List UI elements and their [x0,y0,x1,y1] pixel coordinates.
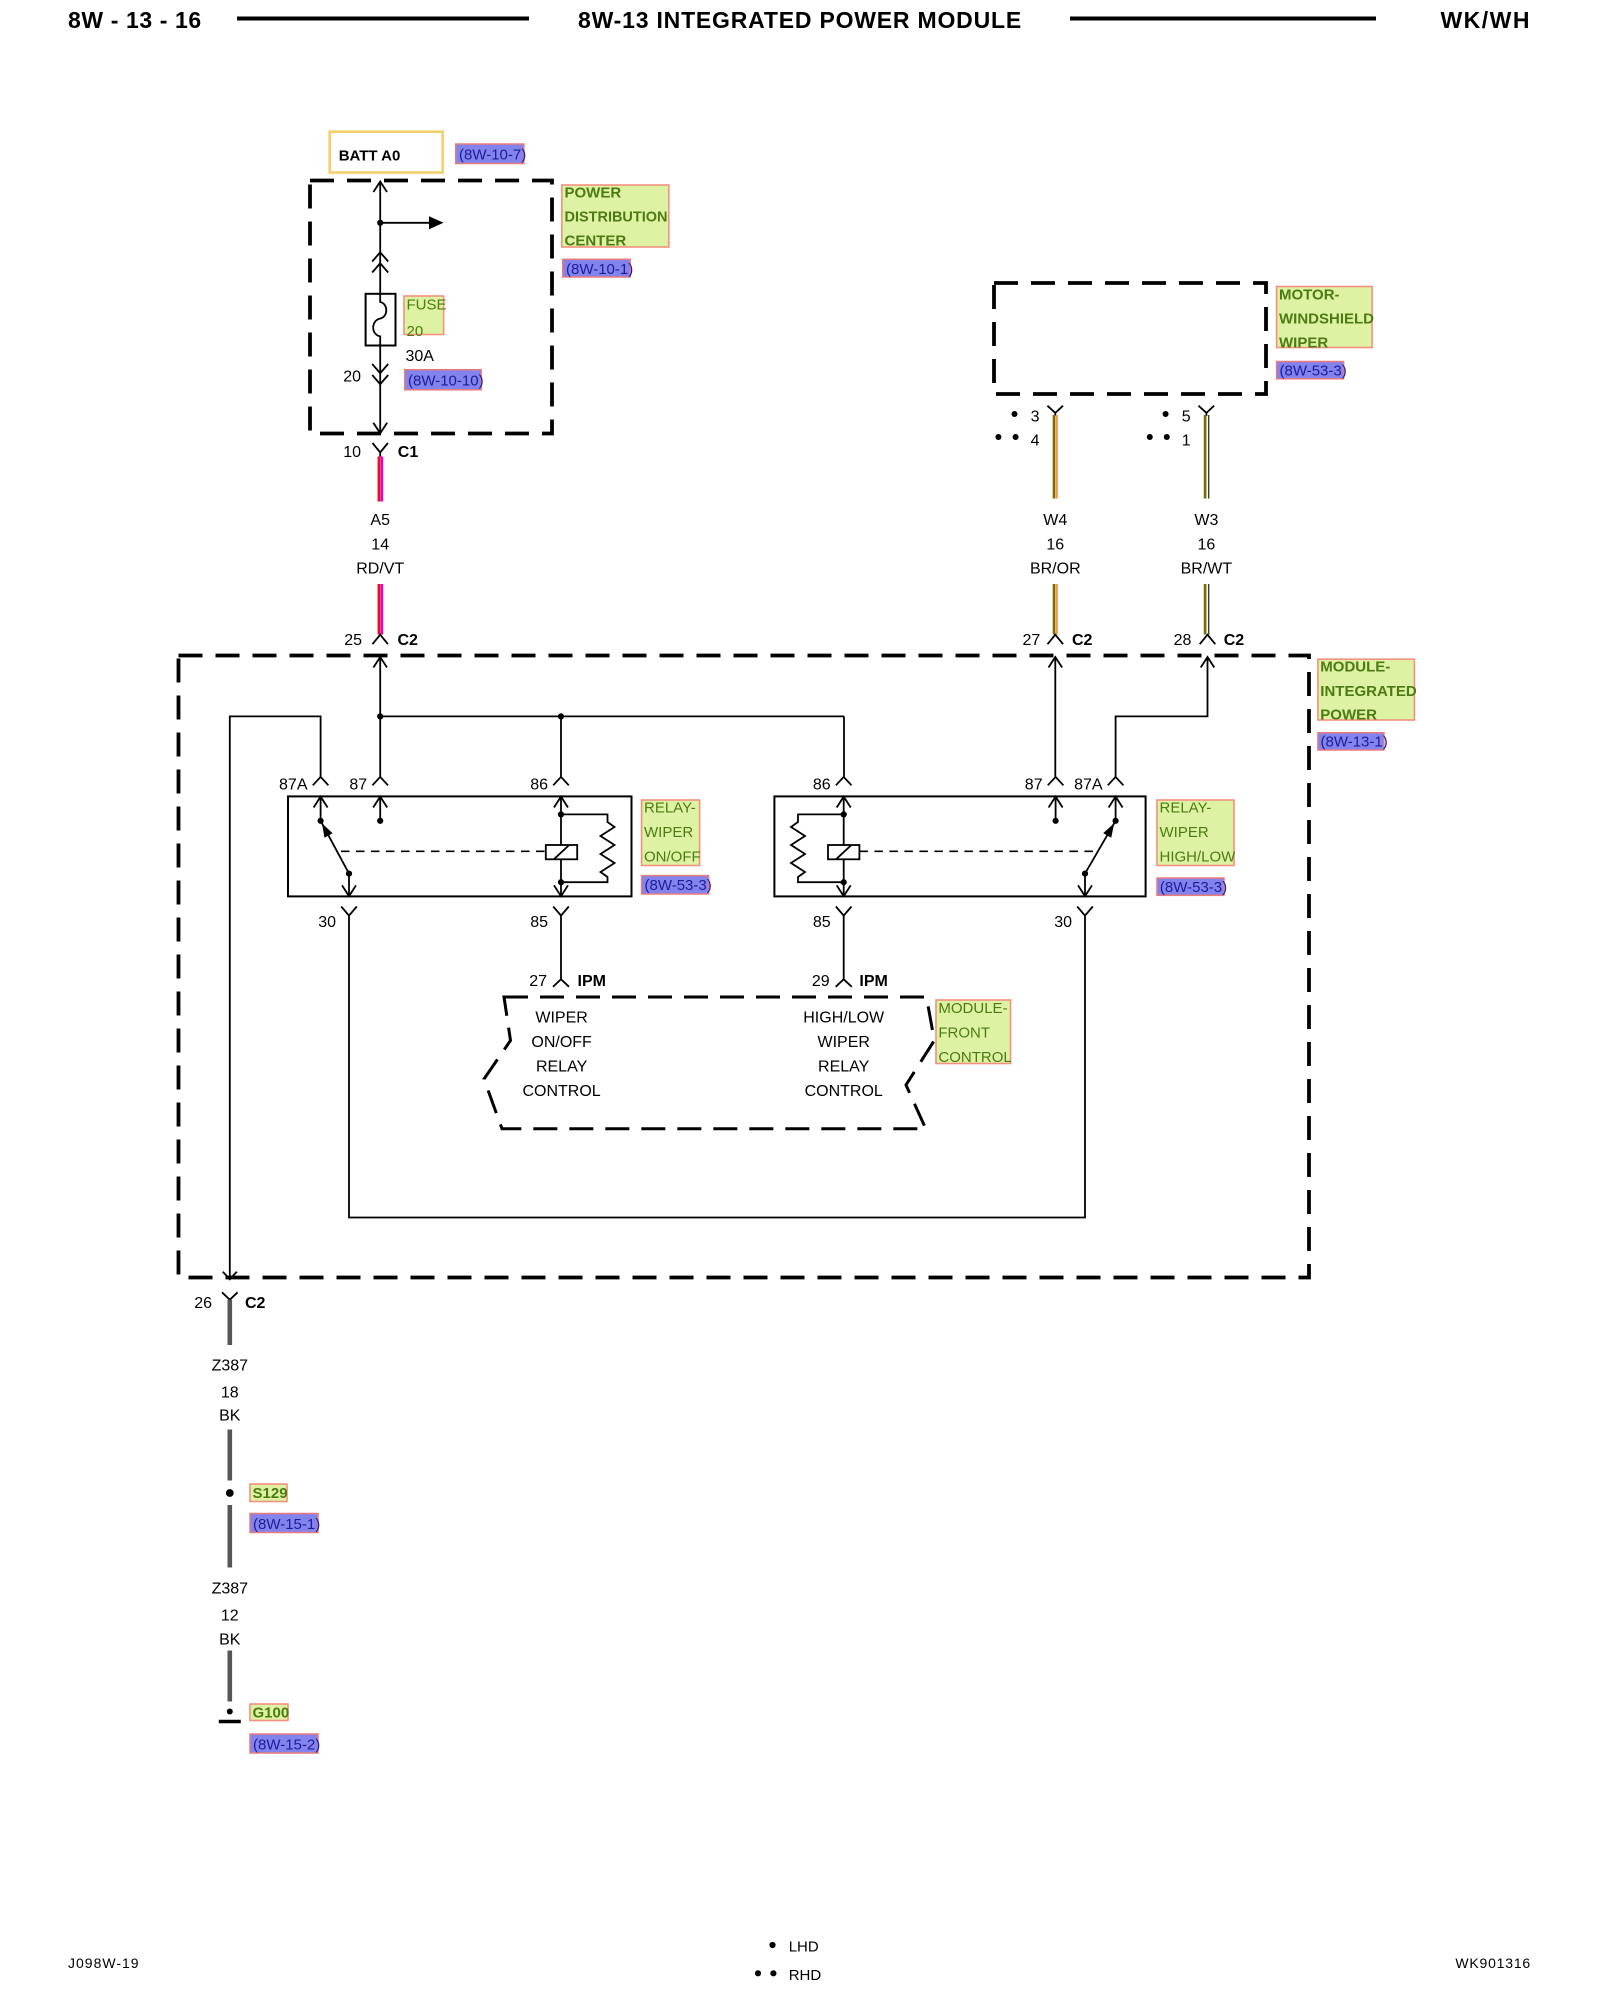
svg-text:ON/OFF: ON/OFF [644,849,701,866]
motor connector fork W4 [1047,406,1063,416]
wire feed from pin 25 [379,657,381,777]
svg-text:(8W-10-10): (8W-10-10) [408,373,484,390]
svg-text:85: 85 [813,914,831,931]
motor pin 3 (LHD) [1012,409,1040,426]
MOTOR-WINDSHIELD WIPER green label [1277,287,1375,352]
svg-text:FRONT: FRONT [938,1025,990,1042]
wire blade to pin 30 left [348,874,350,897]
wire Z387 BK segment 3 [228,1505,233,1568]
wire label W4 16 BR/OR [1030,512,1081,578]
node feed to 86 left [558,713,564,719]
svg-text:WK901316: WK901316 [1455,1955,1531,1971]
node coil bottom left [558,879,564,885]
svg-text:C2: C2 [1072,632,1093,649]
wire W4 16 BR/OR segment 1 [1054,415,1057,499]
svg-text:C1: C1 [398,444,419,461]
connector fork pin 85 left [553,907,569,925]
svg-text:(8W-53-3): (8W-53-3) [1280,363,1347,380]
relay wiper on/off box [288,796,632,896]
svg-text:MODULE-: MODULE- [938,1000,1007,1017]
svg-text:IPM: IPM [578,973,606,990]
wire pin 27 to relay 87 right [1054,657,1056,777]
relay coil right [828,845,859,859]
connector fork pin 30 left [341,907,357,925]
svg-text:12: 12 [221,1608,239,1625]
integrated power module dashed box [179,656,1310,1278]
wire Z387 12 BK segment 4 [228,1651,233,1702]
connector fork pin 30 right [1077,907,1093,925]
reference label (8W-13-1) [1318,733,1388,751]
power distribution center dashed box [310,181,552,434]
battery feed box BATT A0 [330,132,443,173]
pin arrow 85 right out of relay [837,885,851,896]
connector C2 pin 28 [1174,632,1245,649]
wire 87A left to pin 26 [230,716,321,1279]
node 87A left [318,818,324,824]
wire BATT feed inside PDC [379,182,381,223]
pin arrow 85 left out of relay [554,885,568,896]
svg-text:RHD: RHD [789,1967,822,1984]
svg-text:WK/WH: WK/WH [1440,7,1531,33]
reference label (8W-10-7) [456,144,527,164]
svg-text:87: 87 [1025,777,1043,794]
svg-text:30: 30 [318,914,336,931]
connector C1 pin 10 [343,443,418,461]
relay wiper high/low box [774,796,1145,896]
node 87 right stub end [1053,818,1059,824]
svg-text:WIPER: WIPER [535,1010,587,1027]
svg-text:G100: G100 [253,1705,290,1722]
high/low wiper relay control text [803,1010,885,1101]
svg-text:WIPER: WIPER [644,824,693,841]
svg-text:RELAY-: RELAY- [1160,800,1212,817]
MODULE-FRONT CONTROL green label [936,1000,1012,1066]
node feed junction [377,713,383,719]
svg-text:W3: W3 [1194,512,1218,529]
svg-text:10: 10 [343,444,361,461]
pin arrow 86 left into relay [554,797,568,808]
connector C2 pin 25 [344,632,418,649]
svg-text:5: 5 [1182,409,1191,426]
svg-text:BK: BK [219,1408,241,1425]
svg-text:BATT A0: BATT A0 [339,148,401,165]
wire A5 14 RD/VT segment 1 [379,457,382,502]
legend LHD marker [769,1939,818,1956]
resistor parallel branch left relay [561,814,615,882]
svg-text:C2: C2 [398,632,419,649]
svg-text:S129: S129 [253,1485,288,1502]
FUSE 20 green label [404,296,447,340]
wire label Z387 18 BK [212,1358,249,1425]
svg-text:CONTROL: CONTROL [805,1083,883,1100]
svg-text:Z387: Z387 [212,1581,249,1598]
svg-text:WIPER: WIPER [817,1034,869,1051]
svg-text:20: 20 [407,323,424,340]
svg-text:16: 16 [1046,537,1064,554]
reference label (8W-15-1) [250,1514,320,1534]
reference label (8W-53-3) left relay [642,876,712,894]
header rule right [1070,17,1376,21]
wire W4 16 BR/OR segment 2 [1054,584,1057,635]
legend RHD marker [755,1967,821,1984]
connector C2 pin 27 [1023,632,1093,649]
svg-text:1: 1 [1182,432,1191,449]
arrow into PDC at top border [373,182,387,193]
S129 green label [250,1484,288,1502]
wire branch to 86 right relay [843,716,845,776]
svg-text:J098W-19: J098W-19 [68,1955,140,1971]
pin stub 87A right [1115,797,1117,821]
wire junction to connector chevrons [379,223,381,294]
svg-text:(8W-10-7): (8W-10-7) [459,147,526,164]
svg-text:30A: 30A [406,348,435,365]
mechanical linkage dashed left relay [341,850,546,852]
pin arrow 87A left into relay [314,797,328,808]
svg-text:CENTER: CENTER [565,233,627,250]
wire pin 85 left to IPM control [560,925,562,980]
motor pin 5 (LHD) [1163,409,1191,426]
svg-text:Z387: Z387 [212,1358,249,1375]
svg-text:87A: 87A [1074,777,1103,794]
svg-text:POWER: POWER [565,185,622,202]
junction node in PDC [377,220,383,226]
pin stub 87 right [1055,797,1057,821]
connector fork IPM pin 27 [529,973,606,990]
module front control dashed outline [484,997,934,1129]
ground G100 symbol [219,1709,241,1722]
RELAY-WIPER HIGH/LOW green label [1157,800,1236,866]
wire A5 14 RD/VT segment 2 [379,584,382,635]
svg-text:87: 87 [349,777,367,794]
arrow out of IPM pin 26 [223,1272,237,1280]
svg-text:20: 20 [343,369,361,386]
motor pin 4 (RHD) [995,432,1039,449]
svg-text:30: 30 [1054,914,1072,931]
svg-text:ON/OFF: ON/OFF [531,1034,592,1051]
wire Z387 18 BK segment 2 [228,1430,233,1481]
svg-text:27: 27 [1023,632,1041,649]
arrow into IPM pin 25 [373,657,387,668]
wire label A5 14 RD/VT [356,512,404,578]
pin stub 87A left [320,797,322,821]
svg-text:C2: C2 [1224,632,1245,649]
svg-text:87A: 87A [279,777,308,794]
connector chevron pair (down) [372,364,388,384]
svg-text:BR/WT: BR/WT [1181,561,1233,578]
wiper on/off relay control text [522,1010,600,1101]
svg-text:(8W-15-1): (8W-15-1) [253,1516,320,1533]
connector fork IPM pin 29 [812,973,888,990]
pin arrow 87A right into relay [1109,797,1123,808]
svg-text:85: 85 [530,914,548,931]
svg-text:3: 3 [1031,409,1040,426]
RELAY-WIPER ON/OFF green label [642,800,701,866]
motor windshield wiper dashed box [994,283,1266,394]
svg-text:(8W-53-3): (8W-53-3) [645,877,712,894]
svg-text:(8W-10-1): (8W-10-1) [566,261,633,278]
connector fork pin 86 left [553,777,569,785]
wire branch to other circuits [380,222,430,224]
splice node S129 [226,1489,234,1497]
wire W3 16 BR/WT segment 2 [1205,584,1209,635]
relay coil left [546,845,577,859]
svg-text:25: 25 [344,632,362,649]
svg-text:WIPER: WIPER [1160,824,1209,841]
wire coil branch 86 to 85 right [843,797,845,897]
branch arrow (filled) [429,216,444,229]
motor pin 1 (RHD) [1147,432,1191,449]
svg-text:(8W-15-2): (8W-15-2) [253,1737,320,1754]
reference label (8W-10-1) [563,259,634,278]
connector fork pin 86 right [836,777,852,785]
resistor parallel branch right relay [791,814,844,882]
svg-text:MODULE-: MODULE- [1320,659,1390,676]
wire branch to 86 left relay [560,716,562,776]
svg-text:W4: W4 [1043,512,1067,529]
wire linking pin 30 left to pin 30 right [349,925,1085,1218]
reference label (8W-53-3) right relay [1157,878,1227,896]
svg-text:RELAY: RELAY [536,1059,588,1076]
motor connector fork W3 [1199,406,1215,416]
wire pin 28 to relay 87A right [1116,657,1208,777]
svg-text:CONTROL: CONTROL [522,1083,600,1100]
svg-text:14: 14 [371,537,389,554]
wire coil branch 86 to 85 left [560,797,562,897]
wire feed bus horizontal [380,715,844,717]
MODULE-INTEGRATED POWER green label [1318,659,1417,724]
svg-text:86: 86 [530,777,548,794]
svg-text:POWER: POWER [1320,707,1377,724]
reference label (8W-53-3) motor [1277,362,1347,380]
POWER DISTRIBUTION CENTER green label [562,185,669,250]
svg-text:(8W-53-3): (8W-53-3) [1160,879,1227,896]
switch blade right relay [1085,821,1116,874]
connector fork pin 87 right [1048,777,1064,785]
switch blade left relay [321,821,349,874]
svg-text:DISTRIBUTION: DISTRIBUTION [565,209,668,226]
node blade bottom left [346,871,352,877]
svg-text:MOTOR-: MOTOR- [1279,287,1340,304]
svg-text:CONTROL: CONTROL [938,1049,1011,1066]
pin arrow 86 right into relay [837,797,851,808]
svg-text:A5: A5 [370,512,390,529]
svg-text:BR/OR: BR/OR [1030,561,1081,578]
node 87 left stub end [377,818,383,824]
wire label Z387 12 BK [212,1581,249,1649]
pin arrow 87 left into relay [373,797,387,808]
wire below fuse [379,346,381,434]
node blade bottom right [1082,871,1088,877]
svg-text:27: 27 [529,973,547,990]
svg-text:4: 4 [1031,432,1040,449]
svg-text:29: 29 [812,973,830,990]
svg-text:26: 26 [194,1295,212,1312]
svg-text:8W-13 INTEGRATED POWER MODULE: 8W-13 INTEGRATED POWER MODULE [578,7,1022,33]
G100 green label [250,1704,289,1722]
connector C2 pin 26 [194,1292,265,1312]
arrow into IPM pin 27 [1049,657,1063,668]
svg-text:IPM: IPM [859,973,887,990]
svg-text:RD/VT: RD/VT [356,561,404,578]
pin stub 87 left [379,797,381,821]
node 86 left top [558,811,564,817]
wire Z387 18 BK segment 1 [228,1300,233,1345]
pin arrow 30 right out of relay [1078,885,1092,896]
svg-text:C2: C2 [245,1295,266,1312]
arrow into IPM pin 28 [1201,657,1215,668]
pin arrow 87 right into relay [1049,797,1063,808]
wire W3 16 BR/WT segment 1 [1205,415,1209,499]
wire label W3 16 BR/WT [1181,512,1233,578]
svg-text:WIPER: WIPER [1279,335,1328,352]
reference label (8W-15-2) [250,1734,320,1754]
fuse 20 element [366,294,396,346]
connector fork pin 87A left [313,777,329,785]
arrow out of PDC at bottom border [373,423,387,434]
connector chevron pair (up) [372,252,388,272]
connector fork pin 85 right [836,907,852,925]
svg-text:86: 86 [813,777,831,794]
pin arrow 30 left out of relay [342,885,356,896]
svg-text:BK: BK [219,1632,241,1649]
svg-text:28: 28 [1174,632,1192,649]
connector fork pin 87 left [372,777,388,785]
header rule left [237,17,529,21]
wire blade to pin 30 right [1084,874,1086,897]
svg-text:8W - 13 - 16: 8W - 13 - 16 [68,7,202,33]
svg-text:INTEGRATED: INTEGRATED [1320,683,1417,700]
node 87A right [1113,818,1119,824]
svg-text:HIGH/LOW: HIGH/LOW [803,1010,885,1027]
svg-text:18: 18 [221,1385,239,1402]
svg-text:HIGH/LOW: HIGH/LOW [1160,849,1237,866]
mechanical linkage dashed right relay [859,850,1097,852]
svg-text:16: 16 [1198,537,1216,554]
wire pin 85 right to IPM control [843,925,845,980]
reference label (8W-10-10) [405,370,484,390]
svg-text:RELAY: RELAY [818,1059,870,1076]
svg-text:RELAY-: RELAY- [644,800,696,817]
connector fork pin 87A right [1108,777,1124,785]
svg-text:FUSE: FUSE [407,297,447,314]
svg-text:(8W-13-1): (8W-13-1) [1321,734,1388,751]
node 86 right top [841,811,847,817]
svg-text:LHD: LHD [789,1939,819,1956]
svg-text:WINDSHIELD: WINDSHIELD [1279,311,1374,328]
node coil bottom right [841,879,847,885]
